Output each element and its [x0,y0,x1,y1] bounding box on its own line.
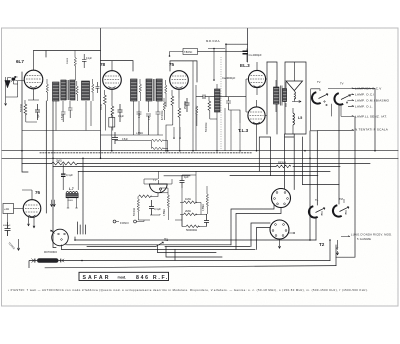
IF transformer T1a [61,80,66,100]
capacitor 1uF right of eye [180,175,185,188]
svg-text:FONO: FONO [120,221,129,225]
resistor R12 under 75 [163,98,165,120]
svg-text:L.7: L.7 [69,187,74,191]
svg-text:LAMP. O.M.I BIASMO: LAMP. O.M.I BIASMO [355,99,390,103]
wire: main bus y158.3 [2,157,398,159]
svg-text:• PIASTRI: 7 watt — AUTOFONI: • PIASTRI: 7 watt — AUTOFONICA con modo … [8,288,368,292]
wire: vertical x46.3 [45,101,47,213]
resistor R5 top [74,51,76,81]
left box 4ohm [3,204,14,214]
capacitor C cathode 6L7 [35,104,40,120]
wire: corners bottom right [330,240,336,266]
wire: phono to bus [62,237,76,249]
M.R. milliammeter wire [208,49,225,81]
T1 switch [156,242,164,246]
resistor eye left vertical [137,197,150,221]
resistor R10 below 75 [171,90,174,125]
svg-text:0,5μF: 0,5μF [122,139,129,141]
tube TL3 [248,107,265,124]
wire: 78 top link [101,61,134,71]
junction dots on buses [21,43,376,261]
wire: top link 6L7 to 78 [34,51,101,58]
wire: bottom bus y244.8 [67,244,231,246]
svg-text:6L7: 6L7 [16,59,24,64]
capacitor eye [149,200,154,215]
svg-text:50000: 50000 [67,57,69,64]
wire: bottom bus y252.6 [158,245,217,253]
wire: bottom bus y240 [75,239,316,241]
svg-text:0,1μF: 0,1μF [154,207,161,211]
capacitor Ca coupling [196,95,246,100]
socket U1 [272,189,291,208]
wire: vertical x83 mid-left [78,158,86,234]
resistor 0.5M vertical right [206,186,208,214]
svg-text:50000Ω: 50000Ω [21,104,23,112]
resistor o.5M lower [152,147,168,149]
wire: 75 top link [170,61,197,82]
wire eye to bus [157,171,159,179]
svg-text:470000Ω: 470000Ω [162,110,164,120]
svg-text:5 GAMME: 5 GAMME [357,237,371,241]
antenna [5,81,11,88]
wire: EL3 rail right x277 [267,62,277,134]
capacitor C12 [185,98,190,112]
wire: EL3 rail left x267 [266,62,268,134]
wire: bottom bus y261.2 [82,249,330,260]
resistor box 300ohm [109,118,115,128]
resistor R9 [165,80,167,101]
svg-text:LAMPADA O.C.V: LAMPADA O.C.V [355,87,382,91]
switch S4 TM [333,205,342,216]
wire: vertical x100.5 top frame to bus [100,29,102,159]
resistor 500000 horizontal low [182,225,207,228]
wire: link y44.2 [226,44,248,96]
capacitor left bottom [5,222,11,236]
svg-text:T.L.3: T.L.3 [238,128,249,133]
svg-text:M.R. 6 M.A.: M.R. 6 M.A. [206,39,220,43]
capacitor C11 [156,110,161,135]
T.BOSC box [183,49,198,55]
svg-text:6000pF: 6000pF [3,225,11,227]
svg-text:MOTORINO: MOTORINO [44,251,57,254]
wire EL3 grid [246,79,249,112]
tube 78 [103,71,122,90]
tube 75 [170,71,189,90]
wire: vertical x53 [53,101,56,248]
wire: bus y163.6 with 2M ohm resistor gap [22,163,370,165]
wavelength arrow [341,235,350,238]
resistor 2M ohm in bus [52,162,78,165]
IF coil L1 [53,82,60,101]
wire: bottom bus y249.4 [62,248,256,250]
svg-text:Ca.4000pF: Ca.4000pF [222,76,236,80]
wire: socket1 left leads [231,204,281,250]
capacitor C8 below 78 [118,104,123,122]
resistor o.5M upper [152,139,168,141]
wire EL3 plate [265,79,267,116]
resistor 470000 ohm [208,97,217,120]
svg-text:0,1μF: 0,1μF [86,58,93,60]
svg-text:TM·: TM· [339,197,344,201]
svg-text:1μF: 1μF [38,113,40,118]
IF transformer T2a [146,79,152,101]
trimmer capacitor antenna [12,78,16,81]
field coil L5 [293,113,295,125]
wires below IF2 [101,101,167,135]
dashed divider x221 [220,57,222,151]
svg-text:0,1μF: 0,1μF [118,116,125,118]
tube 76 heater leads with arrows [28,217,36,228]
capacitor Cs 4000pF [243,51,249,54]
wire: bottom bus y246.4 with T1 switch gap [87,245,250,247]
capacitor low cluster [204,214,209,227]
resistor R11 below 75 [178,98,181,151]
tube 6L7 [24,70,43,89]
junction leads with dots [174,127,180,137]
resistor R6 below 78 [104,90,107,131]
wire: vertical x247.5 from top frame [247,29,249,63]
output transformer T3 [274,87,280,104]
svg-text:0,5μF: 0,5μF [62,113,64,120]
svg-text:L5: L5 [298,116,302,120]
speaker cone [286,81,303,91]
svg-text:T.V: T.V [153,179,157,182]
svg-text:T1: T1 [164,238,168,242]
wire: right vertical x375 [354,89,375,151]
wire 75 to buses [166,61,196,151]
svg-text:25000Ω: 25000Ω [185,101,187,109]
volume pot 500000 ohm [215,89,221,112]
capacitor C13 [226,97,240,123]
svg-text:T.BOSC: T.BOSC [184,52,193,54]
switch S3 TL [309,206,318,217]
IF coil L3 [131,79,138,101]
wires below 6L7 coils [22,101,101,131]
svg-text:50000Ω: 50000Ω [134,208,136,216]
switch S2 [334,93,343,104]
wire: vertical x22 left [22,72,28,172]
svg-text:o,5MΩ: o,5MΩ [136,133,143,135]
resistor R3 [76,81,78,101]
capacitor C 0.1uF mid-left [61,174,66,176]
IF coil L2 [82,81,90,100]
wire: right link y184.5 [303,184,340,186]
wire y51.3 to cap [198,50,245,52]
resistor R8 [139,79,141,101]
svg-text:0,5MΩ: 0,5MΩ [164,209,166,216]
capacitor C6 [61,112,66,122]
wire: right vertical x316 [316,131,317,240]
socket U2 [270,220,289,239]
svg-text:AN: AN [14,76,18,79]
svg-text:SAFAR: SAFAR [83,275,111,281]
resistor R4 [92,79,94,101]
resistor 2M horizontal [180,213,207,216]
svg-text:78: 78 [100,62,106,67]
capacitor C9 [137,110,142,135]
label leads right [317,88,354,131]
resistor R cathode 6L7 [24,104,27,115]
svg-text:TL·: TL· [315,198,319,202]
FONO jacks [113,220,116,223]
svg-text:300Ω: 300Ω [101,104,103,110]
arrow field [292,98,301,102]
wire: bus y171.4 [78,170,330,172]
svg-text:EL.3: EL.3 [240,63,250,68]
svg-text:REN.A: REN.A [278,161,286,165]
wire: bottom bus y266.6 [45,266,336,268]
svg-text:1MΩ: 1MΩ [185,197,191,201]
svg-text:500000Ω: 500000Ω [186,228,197,232]
svg-text:0,1μF: 0,1μF [66,173,73,177]
wire: right vertical x310 [309,131,311,240]
wires eye cluster [144,171,201,226]
heater arrow pair left [51,200,56,207]
resistor 1M horizontal [180,201,201,204]
capacitor C4 [96,82,100,93]
wire: main bus y150.5 [2,150,398,152]
wire: bus y166.6 with REN.A gap [53,166,340,168]
svg-text:0,05: 0,05 [149,115,151,120]
svg-text:846 R.F.: 846 R.F. [136,275,169,281]
svg-text:Cs.4000pF: Cs.4000pF [249,53,263,57]
svg-text:TV·: TV· [340,82,344,86]
svg-text:500000Ω: 500000Ω [206,122,208,132]
wire: right vertical x355 [336,116,355,257]
svg-text:LAMP. O.L.: LAMP. O.L. [355,105,373,109]
svg-text:T2: T2 [319,242,325,247]
svg-text:2MΩ: 2MΩ [185,209,191,213]
resistor R2 [46,79,48,101]
wire: socket2 leads [251,223,270,249]
resistor R13 under 75 [196,106,198,126]
svg-text:LUNG.D'ONDA RICEV. MOD.: LUNG.D'ONDA RICEV. MOD. [351,233,392,237]
svg-text:0,5MΩ: 0,5MΩ [203,204,205,211]
svg-text:1μF: 1μF [184,175,189,179]
wire: right vertical x339 [339,105,341,204]
T2 arrow [336,240,338,255]
svg-text:LAMP. O.C.I: LAMP. O.C.I [355,93,374,97]
phono socket [52,229,69,246]
svg-text:0,1μF: 0,1μF [139,111,141,118]
tube 76 [23,200,41,218]
coil L7 [66,191,78,193]
wire: dotted bus y152.6 [40,152,252,154]
wire drops EL3 area [225,108,240,151]
svg-text:TV·: TV· [317,80,321,84]
capacitor C7 [68,108,73,118]
capacitor 0.5uF mid cluster [112,132,118,144]
ground arrow Terra [17,239,20,251]
wire: bus y175.6 partial [164,175,318,177]
magic eye tube [150,184,168,193]
antenna wiring [6,77,25,101]
svg-text:mod.: mod. [118,276,127,280]
svg-text:+4Ω: +4Ω [4,207,9,211]
resistor R7 below 78 [111,100,114,131]
capacitor C10 [146,114,151,135]
resistor REN.A [276,165,291,168]
power plug capsule [29,258,82,268]
svg-text:2MΩ: 2MΩ [56,158,62,162]
wire: speaker box [285,62,306,134]
wire: TL3 bottom rail [259,134,294,190]
tube EL3 [248,70,265,87]
svg-text:400Ω: 400Ω [68,200,74,202]
resistor 0.5M eye right [167,188,169,220]
capacitor C5 top [82,54,87,68]
switch S1 [312,92,321,103]
resistor eye grid [139,195,152,198]
svg-text:75: 75 [169,62,175,67]
svg-text:N.TENTATI F SCALA: N.TENTATI F SCALA [355,128,389,132]
wire: bottom bus y257 [166,246,222,257]
SAFAR title box [79,272,169,281]
wire: right vertical x302.5 [302,137,304,185]
svg-text:76: 76 [35,190,41,195]
svg-text:LAMP.LL SENZ. IAT.: LAMP.LL SENZ. IAT. [355,115,387,119]
